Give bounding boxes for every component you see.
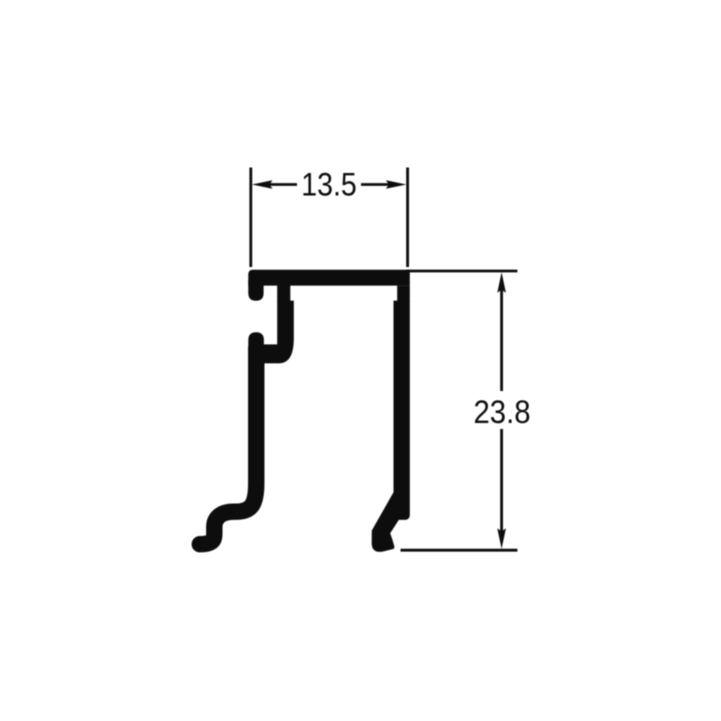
- clip stub: [248, 332, 264, 352]
- arrow 23.8 up: [497, 272, 506, 293]
- dimension line 23.8 lower segment: [500, 429, 503, 532]
- inner stem lower: [277, 301, 294, 364]
- profile top flange: [248, 270, 409, 286]
- left wall and S-foot: [200, 348, 256, 544]
- arrow 13.5 right: [386, 180, 407, 189]
- arrow 23.8 down: [497, 528, 506, 549]
- extension line 23.8 bottom: [401, 549, 518, 552]
- svg-text:23.8: 23.8: [474, 394, 531, 430]
- right wall upper: [397, 286, 410, 302]
- dimension line 13.5 right segment: [361, 183, 392, 186]
- right wall and hook: [372, 301, 410, 552]
- svg-text:13.5: 13.5: [301, 167, 357, 203]
- arrow 13.5 left: [252, 180, 273, 189]
- extension line 23.8 top: [406, 270, 517, 273]
- extension line 13.5 right: [406, 168, 409, 268]
- bridge: [250, 344, 279, 363]
- dimension line 13.5 left segment: [268, 183, 297, 186]
- extension line 13.5 left: [249, 168, 252, 268]
- inner stem upper: [277, 283, 290, 302]
- dimension line 23.8 upper segment: [500, 290, 503, 391]
- left lip: [248, 280, 263, 301]
